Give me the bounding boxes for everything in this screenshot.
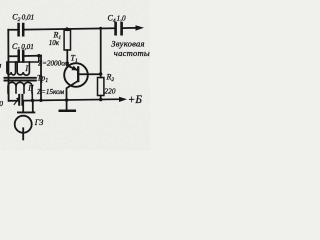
wire bottom bus bbox=[9, 99, 122, 101]
transformer Tp1 winding I bbox=[9, 56, 39, 62]
connector pins G3 bbox=[23, 101, 33, 113]
node junction at winding I riser bbox=[37, 54, 40, 57]
capacitor C4 bbox=[116, 23, 122, 34]
power arrow +B bbox=[119, 97, 127, 102]
transformer core bbox=[5, 78, 36, 81]
wire mid rail bbox=[40, 56, 42, 101]
capacitor C2 bbox=[19, 24, 24, 35]
wire top bus bbox=[8, 28, 137, 30]
resistor R1 bbox=[64, 30, 70, 50]
trimmer capacitor bbox=[19, 95, 22, 105]
wire left rail bbox=[7, 30, 9, 101]
ground bbox=[66, 100, 68, 110]
wire right rail (base/R2) bbox=[100, 28, 102, 77]
transistor T1 bbox=[64, 63, 88, 87]
transformer winding II bbox=[31, 93, 33, 101]
resistor R2 bbox=[98, 78, 104, 96]
output arrow audio frequency bbox=[136, 25, 145, 30]
wire C1 row bbox=[9, 55, 41, 58]
generator G3 bbox=[15, 116, 32, 133]
capacitor C1 bbox=[19, 51, 24, 62]
